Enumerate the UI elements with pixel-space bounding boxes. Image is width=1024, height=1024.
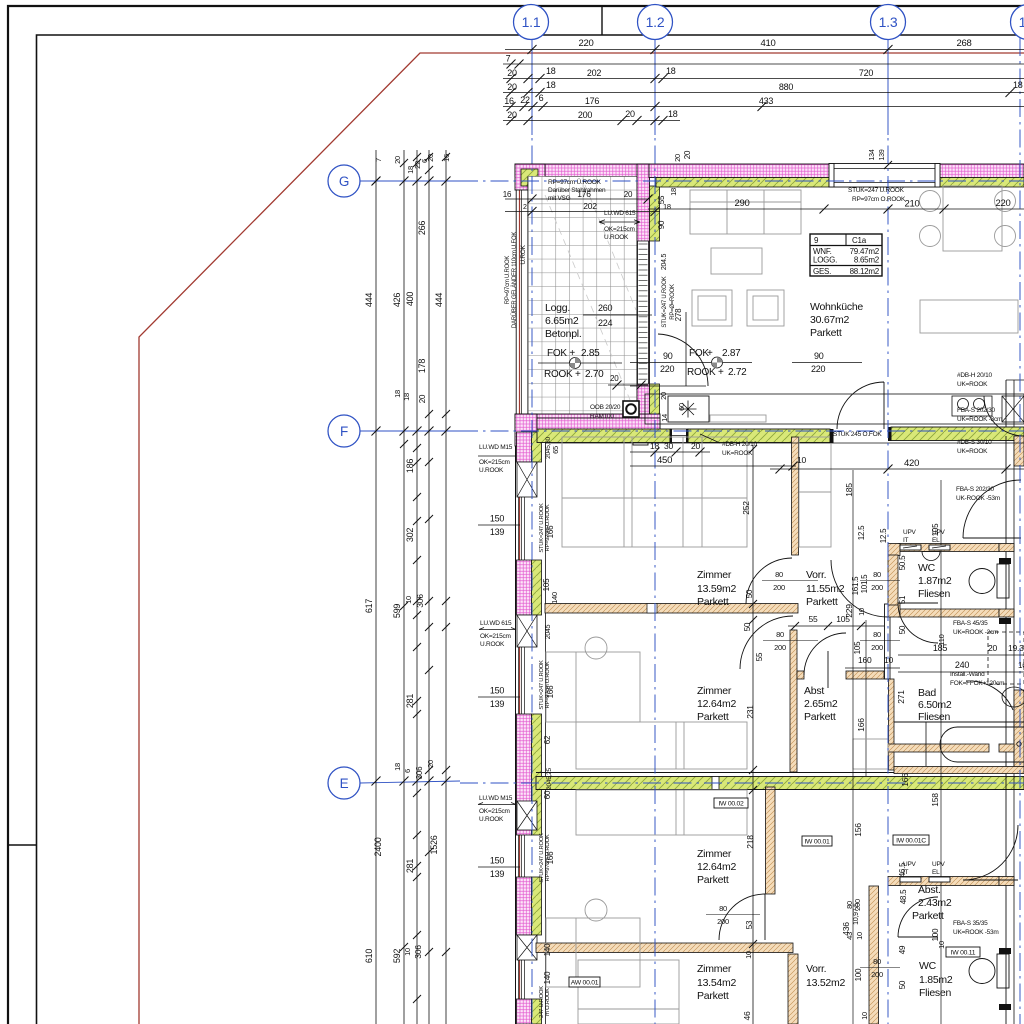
svg-text:IW 00.02: IW 00.02 bbox=[718, 801, 744, 808]
nightstand circle Zimmer3 bbox=[585, 899, 607, 921]
loggia bottom wall pink hatch bbox=[515, 414, 660, 430]
svg-text:101.5: 101.5 bbox=[860, 574, 869, 594]
loggia dim 260 224 bbox=[583, 314, 652, 316]
svg-text:AW 00.01: AW 00.01 bbox=[571, 980, 599, 987]
wall Zimmer1/Zimmer2 tan bbox=[545, 604, 798, 614]
loggia corner pier G bbox=[515, 164, 545, 190]
svg-text:2.87: 2.87 bbox=[722, 348, 741, 359]
svg-text:202: 202 bbox=[587, 68, 602, 78]
frame fold tick left bbox=[8, 844, 37, 846]
Bad wall vertical tan bbox=[889, 679, 895, 770]
svg-text:204.5: 204.5 bbox=[661, 254, 668, 271]
info table bbox=[810, 234, 882, 276]
svg-text:Zimmer: Zimmer bbox=[697, 685, 732, 697]
bath floor strip tan bbox=[894, 767, 1024, 774]
WC top wall tan bbox=[898, 544, 999, 552]
svg-text:#DB-S 30/10: #DB-S 30/10 bbox=[957, 439, 992, 446]
svg-text:30.67m2: 30.67m2 bbox=[810, 314, 850, 326]
svg-text:20: 20 bbox=[683, 150, 692, 159]
coffee table bbox=[711, 248, 762, 274]
svg-text:65: 65 bbox=[551, 446, 560, 454]
svg-text:UK=ROOK -53m: UK=ROOK -53m bbox=[953, 929, 999, 936]
Abst2/WC2 wall tan bbox=[898, 877, 999, 886]
svg-text:224: 224 bbox=[598, 318, 613, 328]
svg-text:220: 220 bbox=[578, 38, 593, 49]
loggia top wall pink hatch bbox=[515, 164, 649, 177]
svg-text:Zimmer: Zimmer bbox=[697, 963, 732, 975]
loggia slope dashed line bbox=[545, 185, 636, 400]
dining chairs bbox=[920, 191, 941, 212]
svg-text:166: 166 bbox=[856, 718, 866, 732]
central vertical dim line bbox=[752, 445, 754, 1024]
svg-text:1.1: 1.1 bbox=[522, 14, 541, 30]
loggia level mark bbox=[538, 362, 622, 364]
svg-text:281: 281 bbox=[405, 694, 415, 709]
svg-text:271: 271 bbox=[896, 690, 906, 704]
svg-text:Vorr.: Vorr. bbox=[806, 963, 826, 975]
svg-text:UPV: UPV bbox=[903, 861, 917, 868]
svg-text:6.65m2: 6.65m2 bbox=[545, 315, 579, 327]
svg-text:IW 00.11: IW 00.11 bbox=[951, 950, 976, 957]
svg-text:UK-ROOK -53m: UK-ROOK -53m bbox=[956, 495, 1000, 502]
svg-text:U.ROOK: U.ROOK bbox=[480, 641, 505, 648]
dim 185 240 rows bbox=[898, 654, 1024, 656]
svg-text:LU.WD 615: LU.WD 615 bbox=[480, 620, 512, 627]
svg-text:RP=97cm O.ROOK: RP=97cm O.ROOK bbox=[545, 661, 551, 708]
door Wohnkueche bbox=[837, 382, 884, 429]
svg-text:20: 20 bbox=[625, 109, 635, 119]
svg-text:306: 306 bbox=[413, 945, 423, 959]
wall Zimmer3/Vorr2 vertical tan bbox=[766, 787, 776, 894]
svg-text:IW 00.01C: IW 00.01C bbox=[896, 838, 926, 845]
svg-text:Fliesen: Fliesen bbox=[918, 711, 951, 723]
svg-text:20: 20 bbox=[507, 110, 517, 120]
svg-text:220: 220 bbox=[995, 198, 1010, 209]
svg-text:UK=ROOK: UK=ROOK bbox=[957, 448, 988, 455]
svg-text:306: 306 bbox=[415, 766, 424, 779]
svg-text:100: 100 bbox=[931, 928, 940, 941]
svg-text:178: 178 bbox=[417, 359, 427, 374]
loggia top dim 176 202 bbox=[505, 198, 650, 200]
svg-text:18: 18 bbox=[546, 80, 556, 90]
plate IW 00.02 bbox=[714, 798, 748, 808]
svg-text:Logg.: Logg. bbox=[545, 302, 570, 314]
svg-text:176: 176 bbox=[585, 96, 600, 106]
axis 1.1 line bbox=[531, 38, 533, 135]
svg-text:186: 186 bbox=[405, 459, 415, 474]
armchair 1 bbox=[692, 290, 732, 326]
svg-text:62: 62 bbox=[543, 735, 552, 744]
WC bottom wall tan bbox=[898, 609, 999, 617]
stove bbox=[668, 396, 709, 422]
svg-text:7: 7 bbox=[506, 54, 511, 64]
plate AW 00.01 bbox=[569, 977, 600, 987]
svg-text:RP=97cm U.ROOK: RP=97cm U.ROOK bbox=[505, 256, 511, 305]
door stair top bbox=[984, 396, 1024, 436]
axis circle E bbox=[328, 767, 360, 799]
svg-text:Fliesen: Fliesen bbox=[918, 588, 951, 600]
F wall pink band below loggia bbox=[537, 418, 660, 431]
svg-text:150: 150 bbox=[490, 514, 505, 524]
svg-text:Zimmer: Zimmer bbox=[697, 848, 732, 860]
west wall window niche symbols bbox=[517, 462, 537, 497]
svg-text:610: 610 bbox=[364, 949, 374, 964]
wall Zimmer1/Vorr vertical tan bbox=[792, 437, 799, 555]
svg-text:18: 18 bbox=[402, 393, 411, 401]
svg-text:436: 436 bbox=[841, 922, 851, 936]
svg-text:LU.WD 615: LU.WD 615 bbox=[604, 210, 636, 217]
door Abst bbox=[804, 633, 846, 688]
svg-text:Parkett: Parkett bbox=[804, 711, 836, 723]
wardrobe Zimmer1 bbox=[562, 437, 747, 547]
stair wall above F bbox=[1005, 380, 1007, 427]
svg-text:RP=97cm Ü.ROOK: RP=97cm Ü.ROOK bbox=[548, 178, 602, 186]
west wall outer line bbox=[515, 446, 517, 1024]
svg-text:134: 134 bbox=[869, 149, 876, 160]
left dim chain lines bbox=[375, 150, 377, 1024]
svg-text:1526: 1526 bbox=[429, 835, 439, 854]
svg-text:281: 281 bbox=[405, 859, 415, 874]
svg-text:60: 60 bbox=[543, 790, 552, 799]
west wall pier green 2 bbox=[532, 560, 542, 615]
svg-text:mit VSG: mit VSG bbox=[548, 195, 571, 202]
svg-text:200: 200 bbox=[774, 643, 786, 652]
svg-text:11.55m2: 11.55m2 bbox=[806, 583, 845, 595]
svg-text:OK=215cm: OK=215cm bbox=[479, 808, 510, 815]
svg-text:18: 18 bbox=[650, 441, 659, 451]
dim row 176 433 bbox=[503, 106, 1024, 108]
bed Zimmer2 bbox=[546, 652, 640, 722]
svg-text:FBA-S 35/35: FBA-S 35/35 bbox=[953, 920, 988, 927]
svg-text:ROOK +: ROOK + bbox=[544, 369, 581, 380]
svg-text:185: 185 bbox=[933, 643, 948, 653]
svg-text:IT: IT bbox=[903, 869, 909, 876]
svg-text:20: 20 bbox=[610, 374, 619, 383]
svg-text:48.5: 48.5 bbox=[899, 889, 908, 904]
dim row 220 410 268 bbox=[505, 49, 1024, 51]
svg-text:Parkett: Parkett bbox=[697, 990, 729, 1002]
svg-text:200: 200 bbox=[773, 583, 785, 592]
red building line north bbox=[515, 169, 1024, 171]
svg-text:268: 268 bbox=[956, 38, 971, 49]
dim 450 row bbox=[630, 465, 796, 467]
svg-text:16: 16 bbox=[503, 190, 512, 199]
svg-text:150: 150 bbox=[490, 856, 505, 866]
svg-text:FBA-S 202/30: FBA-S 202/30 bbox=[957, 407, 995, 414]
svg-text:18: 18 bbox=[666, 66, 676, 76]
right vertical dim lines bbox=[852, 470, 854, 1024]
svg-text:30: 30 bbox=[664, 441, 673, 451]
svg-text:51: 51 bbox=[898, 595, 907, 604]
svg-text:2.65m2: 2.65m2 bbox=[804, 698, 838, 710]
svg-text:90: 90 bbox=[663, 351, 673, 361]
west wall window 2 bbox=[518, 647, 520, 714]
svg-text:140: 140 bbox=[543, 971, 552, 984]
svg-text:158: 158 bbox=[930, 793, 940, 807]
svg-text:LOGG.: LOGG. bbox=[813, 256, 837, 265]
svg-text:12.5: 12.5 bbox=[879, 528, 888, 543]
kitchen counter bbox=[645, 394, 1024, 424]
svg-text:STUK=247 U.ROOK: STUK=247 U.ROOK bbox=[662, 276, 668, 327]
svg-text:10: 10 bbox=[404, 596, 413, 604]
svg-text:E: E bbox=[340, 776, 349, 791]
svg-text:FOK +: FOK + bbox=[547, 348, 575, 359]
svg-text:8.65m2: 8.65m2 bbox=[854, 256, 880, 265]
svg-text:2.70: 2.70 bbox=[585, 369, 604, 380]
svg-text:2045: 2045 bbox=[545, 624, 552, 639]
svg-text:LU.WD M15: LU.WD M15 bbox=[479, 444, 513, 451]
svg-text:Parkett: Parkett bbox=[806, 596, 838, 608]
plate IW 00.11 bbox=[946, 947, 980, 957]
loggia right wall green strip bbox=[650, 186, 660, 241]
svg-text:20: 20 bbox=[988, 643, 997, 653]
svg-text:Abst: Abst bbox=[804, 685, 824, 697]
svg-text:Fliesen: Fliesen bbox=[919, 987, 952, 999]
loggia dim 20 ticks bbox=[608, 384, 648, 386]
svg-text:18: 18 bbox=[546, 66, 556, 76]
dim row 202 720 bbox=[503, 78, 1024, 80]
dim 160 10 row bbox=[845, 667, 900, 669]
svg-text:139: 139 bbox=[490, 527, 505, 537]
window dim 150 139 labels bbox=[478, 524, 520, 526]
svg-text:150: 150 bbox=[490, 686, 505, 696]
nightstand circle Zimmer2 bbox=[585, 637, 607, 659]
axis circle 1.2 bbox=[638, 5, 673, 40]
svg-text:U.ROOK: U.ROOK bbox=[604, 234, 629, 241]
svg-text:200: 200 bbox=[578, 110, 593, 120]
bed Zimmer3 bbox=[546, 918, 640, 987]
svg-text:139: 139 bbox=[879, 149, 886, 160]
svg-text:240: 240 bbox=[955, 660, 970, 670]
svg-text:10: 10 bbox=[797, 455, 806, 465]
svg-text:202: 202 bbox=[583, 201, 597, 211]
F door posts bbox=[830, 429, 834, 443]
svg-text:60: 60 bbox=[677, 403, 686, 411]
svg-text:160: 160 bbox=[858, 655, 872, 665]
svg-text:1.87m2: 1.87m2 bbox=[918, 575, 952, 587]
svg-text:16: 16 bbox=[504, 96, 514, 106]
shelf Abst bbox=[853, 739, 888, 769]
svg-text:46: 46 bbox=[742, 1011, 752, 1020]
svg-text:EL: EL bbox=[932, 869, 940, 876]
door Zimmer1 bbox=[746, 558, 792, 604]
WC toilet bbox=[969, 569, 995, 594]
svg-text:105: 105 bbox=[853, 641, 862, 654]
svg-text:200: 200 bbox=[717, 917, 729, 926]
kitchen drawer detail bbox=[710, 415, 766, 422]
svg-text:185: 185 bbox=[844, 483, 854, 497]
svg-text:433: 433 bbox=[759, 96, 774, 106]
svg-text:ROOK +: ROOK + bbox=[687, 367, 724, 378]
svg-text:20: 20 bbox=[507, 68, 517, 78]
svg-text:140: 140 bbox=[550, 592, 559, 604]
svg-text:18: 18 bbox=[393, 390, 402, 398]
west wall pier pink 3 bbox=[517, 714, 532, 835]
axis circle 1.3 bbox=[871, 5, 906, 40]
svg-text:50: 50 bbox=[898, 625, 907, 634]
svg-text:55: 55 bbox=[657, 195, 666, 204]
svg-text:1.85m2: 1.85m2 bbox=[919, 974, 953, 986]
svg-text:20: 20 bbox=[624, 190, 633, 199]
bathtub bbox=[894, 721, 1024, 723]
svg-text:Install.-Wand: Install.-Wand bbox=[950, 671, 985, 678]
plate IW 00.01C bbox=[893, 835, 929, 845]
svg-text:C1a: C1a bbox=[852, 236, 867, 245]
fridge appliance bbox=[1002, 396, 1024, 422]
svg-text:90: 90 bbox=[657, 220, 666, 229]
svg-text:OK=215cm: OK=215cm bbox=[479, 459, 510, 466]
loggia glass door ladder symbol bbox=[638, 241, 649, 384]
svg-text:16: 16 bbox=[1018, 661, 1024, 670]
dim row 7 bbox=[503, 63, 1024, 65]
svg-text:20: 20 bbox=[393, 156, 402, 164]
svg-text:Zimmer: Zimmer bbox=[697, 569, 732, 581]
west wall pier green 3 bbox=[532, 714, 542, 835]
frame fold divider mark bbox=[601, 6, 603, 35]
north wall window bbox=[829, 164, 940, 188]
Bad washbasin bbox=[966, 681, 1013, 710]
svg-text:OK=215cm: OK=215cm bbox=[480, 633, 511, 640]
svg-text:10: 10 bbox=[403, 948, 412, 956]
svg-text:6: 6 bbox=[539, 93, 544, 103]
svg-text:18: 18 bbox=[393, 763, 402, 771]
door WC bbox=[898, 603, 938, 643]
svg-text:U.ROK: U.ROK bbox=[520, 244, 527, 264]
svg-text:13.54m2: 13.54m2 bbox=[697, 977, 737, 989]
axis 1.2 line bbox=[654, 38, 656, 135]
west wall inner face line bbox=[545, 443, 547, 1024]
svg-text:RAM100: RAM100 bbox=[590, 413, 614, 420]
svg-text:100: 100 bbox=[854, 968, 863, 981]
loggia door swing bbox=[658, 334, 708, 386]
E wall green band bbox=[536, 772, 1024, 774]
svg-text:UPV: UPV bbox=[903, 529, 917, 536]
svg-text:420: 420 bbox=[904, 458, 919, 469]
interior face lines bbox=[545, 442, 1024, 444]
svg-text:252: 252 bbox=[741, 501, 751, 515]
svg-text:80: 80 bbox=[873, 570, 881, 579]
axis E line bbox=[360, 781, 460, 783]
svg-text:2.85: 2.85 bbox=[581, 348, 600, 359]
svg-text:90: 90 bbox=[814, 351, 824, 361]
svg-text:Vorr.: Vorr. bbox=[806, 569, 826, 581]
wall Zimmer2/Zimmer3 tan bbox=[536, 943, 793, 953]
svg-text:2400: 2400 bbox=[373, 837, 383, 856]
armchair 2 bbox=[747, 290, 784, 326]
Wohnkueche level mark bbox=[630, 362, 752, 364]
svg-text:+: + bbox=[707, 348, 713, 359]
svg-text:13.59m2: 13.59m2 bbox=[697, 583, 737, 595]
loggia tiled floor bbox=[528, 177, 637, 415]
loggia right wall pink hatch bbox=[637, 164, 650, 430]
wardrobe Vorr bbox=[799, 437, 831, 547]
svg-text:218: 218 bbox=[745, 835, 755, 849]
svg-text:10: 10 bbox=[860, 1012, 869, 1020]
west wall pier green 4 bbox=[532, 877, 542, 935]
svg-text:UK=ROOK: UK=ROOK bbox=[957, 381, 988, 388]
svg-text:#DB-H 20/10: #DB-H 20/10 bbox=[722, 441, 757, 448]
svg-text:RP=97cm O.ROOK: RP=97cm O.ROOK bbox=[852, 196, 906, 203]
dim line 166 Bad bbox=[865, 620, 867, 776]
svg-text:Betonpl.: Betonpl. bbox=[545, 328, 582, 340]
svg-text:231: 231 bbox=[745, 705, 755, 719]
left dim chain extra ticks bbox=[413, 458, 421, 466]
svg-text:220: 220 bbox=[660, 364, 675, 374]
svg-text:10: 10 bbox=[857, 608, 866, 616]
axis circle 1.4 bbox=[1011, 5, 1024, 40]
red building line west bbox=[519, 165, 521, 1024]
wall Vorr/WC white pier bbox=[885, 604, 891, 679]
stair west wall lines bbox=[1005, 436, 1007, 1024]
svg-text:UK=ROOK -3cm: UK=ROOK -3cm bbox=[957, 416, 1002, 423]
svg-text:50: 50 bbox=[743, 622, 752, 631]
svg-text:18: 18 bbox=[669, 188, 678, 196]
svg-text:STUK 245 O.FOK: STUK 245 O.FOK bbox=[833, 431, 882, 438]
svg-text:EL: EL bbox=[932, 537, 940, 544]
svg-text:16: 16 bbox=[442, 154, 451, 162]
wall Zimmer2/Abst vertical tan bbox=[790, 630, 797, 772]
svg-text:Bad: Bad bbox=[918, 687, 936, 699]
svg-text:200: 200 bbox=[871, 643, 883, 652]
svg-text:6.50m2: 6.50m2 bbox=[918, 699, 952, 711]
E wall jamb slot bbox=[712, 777, 719, 790]
svg-text:7: 7 bbox=[374, 158, 383, 162]
plate IW00.01 bbox=[802, 836, 832, 846]
svg-text:WC: WC bbox=[919, 960, 937, 972]
svg-text:200: 200 bbox=[853, 899, 862, 911]
svg-text:1.3: 1.3 bbox=[879, 14, 898, 30]
door Zimmer2 bbox=[740, 616, 793, 669]
svg-text:410: 410 bbox=[760, 38, 775, 49]
svg-text:20: 20 bbox=[426, 154, 435, 162]
svg-text:OOB 20/20: OOB 20/20 bbox=[590, 404, 621, 411]
svg-text:139: 139 bbox=[490, 869, 505, 879]
axis G line bbox=[360, 180, 460, 182]
svg-text:10: 10 bbox=[937, 941, 946, 949]
svg-text:139: 139 bbox=[490, 699, 505, 709]
svg-text:55: 55 bbox=[755, 652, 764, 661]
svg-text:80: 80 bbox=[873, 630, 881, 639]
svg-text:444: 444 bbox=[434, 293, 444, 308]
svg-text:12.64m2: 12.64m2 bbox=[697, 861, 737, 873]
wardrobe Zimmer2 bottom bbox=[576, 722, 747, 769]
svg-text:UK=ROOK: UK=ROOK bbox=[722, 450, 753, 457]
svg-text:400: 400 bbox=[405, 292, 415, 307]
svg-text:Abst.: Abst. bbox=[918, 884, 941, 896]
svg-text:6: 6 bbox=[403, 769, 412, 773]
left dim chain ticks bbox=[372, 177, 381, 186]
svg-text:140: 140 bbox=[543, 943, 552, 956]
door Zimmer3 bbox=[719, 894, 765, 940]
axis circle F bbox=[328, 415, 360, 447]
axis 1.3 line bbox=[887, 38, 889, 135]
svg-text:1.2: 1.2 bbox=[646, 14, 665, 30]
west wall pier green 1 bbox=[532, 432, 542, 462]
svg-text:2045,25: 2045,25 bbox=[546, 767, 553, 789]
svg-text:426: 426 bbox=[392, 293, 402, 308]
svg-text:105: 105 bbox=[542, 578, 551, 591]
svg-text:166: 166 bbox=[900, 773, 910, 787]
dim 55 105 row bbox=[788, 625, 884, 627]
dim row 200 bbox=[503, 120, 680, 122]
svg-text:1.4: 1.4 bbox=[1019, 14, 1024, 30]
stair door posts bbox=[999, 558, 1011, 564]
wardrobe Zimmer4 partial bbox=[578, 960, 679, 1024]
svg-text:200: 200 bbox=[871, 583, 883, 592]
svg-text:10: 10 bbox=[884, 655, 893, 665]
svg-text:260: 260 bbox=[598, 303, 613, 313]
west wall pier green 5 bbox=[532, 999, 542, 1024]
